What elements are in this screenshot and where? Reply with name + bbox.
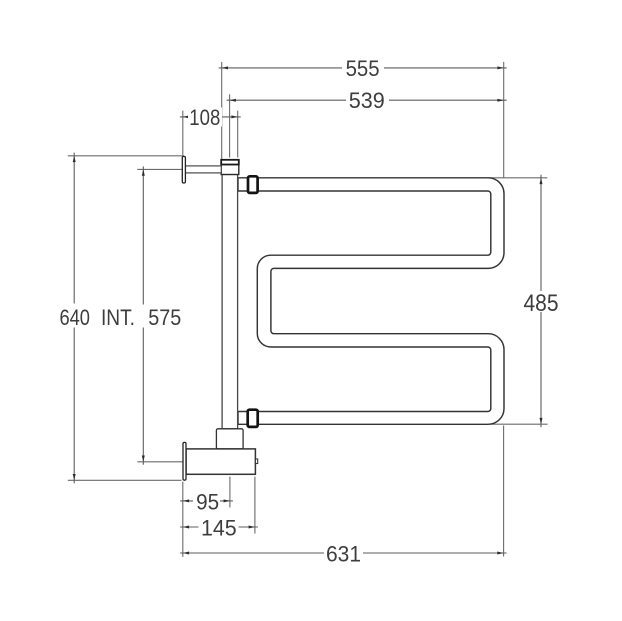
arm: top wall arm tube [185,166,221,173]
node: arrow 631 left [183,552,189,555]
svg-text:145: 145 [201,515,237,540]
collar: bottom collar [216,429,243,449]
label: 95 [193,492,220,511]
wire: ext line 631 right [503,426,505,557]
collar: top collar cap [221,160,239,165]
wire: dim line 555 [219,67,507,69]
svg-text:485: 485 [524,290,559,317]
wire: dim line 485 [540,175,542,427]
wire: ext line 108 left [182,111,184,156]
wire: ext line 145 right [254,477,256,534]
wire: ext line 95 right [229,477,231,508]
wire: dim line 95 [180,500,233,502]
node: arrow INT.575 bottom [142,456,145,462]
node: arrow 539 left [230,99,236,102]
node: arrow 555 left [222,66,228,69]
wire: ext line 555 left (post left edge up) [221,62,223,160]
node: arrow 108 right [231,115,237,118]
tube: serpentine towel-rail tube [238,178,504,424]
wire: ext line INT.575 top [137,168,182,170]
svg-text:631: 631 [326,541,361,566]
wire: ext line 640 bottom [68,479,182,481]
wire: ext line 485 top [489,177,547,179]
svg-text:539: 539 [349,88,385,113]
label: 485 [522,291,561,312]
wire: dim line INT.575 [142,166,144,464]
fitting: top union nut [248,176,258,193]
fitting: bottom union nut [248,410,258,427]
node: arrow 640 top [73,156,76,162]
wire: ext line 485 bottom [490,423,548,425]
node: arrow INT.575 top [142,169,145,175]
wire: dim line 108 [180,116,241,118]
svg-text:640: 640 [59,305,90,330]
flange: bottom wall flange plate [183,442,186,480]
label: 539 [346,91,389,110]
wire: dim line 145 [180,526,258,528]
node: arrow 631 right [497,552,503,555]
nub: bracket side screw [255,459,257,464]
wire: dim line 640 [73,153,75,484]
svg-text:575: 575 [148,305,181,330]
svg-text:INT.: INT. [101,305,135,330]
wire: ext line 108 right [237,111,239,158]
wire: ext line INT.575 bottom [137,461,183,463]
node: arrow 145 left [183,526,189,529]
wire: ext line 640 top [68,155,184,157]
svg-text:555: 555 [346,56,380,81]
node: arrow 539 right [497,99,503,102]
bracket: bottom bracket body [186,449,255,474]
collar: top collar body [221,165,239,175]
svg-text:95: 95 [196,489,219,514]
label: 555 [342,59,384,78]
wire: ext line 555/539 right [503,62,505,178]
node: arrow 95 left [183,499,189,502]
node: arrow 485 bottom [540,418,543,424]
node: arrow 145 right [249,526,255,529]
label: 631 [324,544,363,563]
wire: dim line 539 [227,99,507,101]
wire: ext line 539 left (post centre) [229,94,231,157]
wire: dim line 631 [180,552,507,554]
label: INT. [99,305,185,328]
node: arrow 108 left [183,115,189,118]
label: 640 [59,304,92,328]
label: 145 [199,518,239,537]
node: arrow 555 right [497,66,503,69]
svg-text:108: 108 [189,105,220,130]
wire: ext line 95/145/631 left [182,482,184,557]
node: arrow 485 top [540,178,543,184]
label: 108 [188,108,222,127]
pipe: vertical swivel post [222,174,238,428]
flange: top wall flange plate [182,156,185,183]
node: arrow 640 bottom [73,474,76,480]
node: arrow 95 right [224,499,230,502]
